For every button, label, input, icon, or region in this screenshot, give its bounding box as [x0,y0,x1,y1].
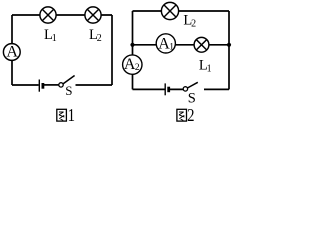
svg-text:2: 2 [135,63,140,73]
svg-text:1: 1 [52,33,57,44]
svg-text:S: S [65,83,72,98]
svg-text:2: 2 [187,105,194,126]
svg-text:1: 1 [207,64,212,75]
svg-text:1: 1 [169,42,174,52]
svg-text:2: 2 [97,33,102,44]
svg-text:A: A [6,43,18,60]
svg-text:1: 1 [68,105,75,126]
svg-text:2: 2 [191,19,196,30]
